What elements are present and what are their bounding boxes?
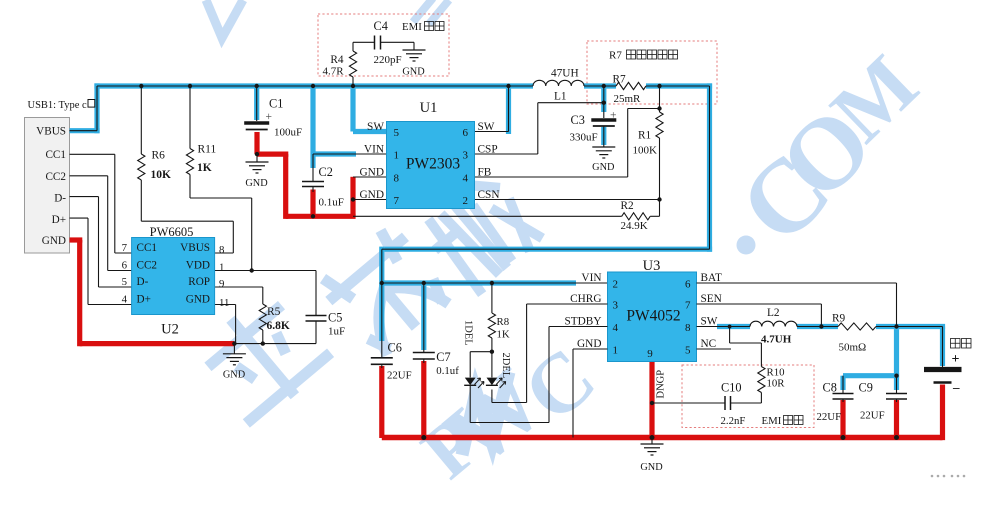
- wire blue bus resume after L1 to R7 left: [584, 83, 616, 88]
- svg-text:6: 6: [122, 260, 128, 272]
- decorative watermark (background): [188, 284, 337, 431]
- wire blue R9 to battery corner: [876, 324, 945, 329]
- wire black U3 STDBY to LED1: [549, 326, 608, 328]
- svg-text:8: 8: [394, 173, 400, 185]
- svg-text:9: 9: [219, 278, 224, 290]
- svg-text:ROP: ROP: [188, 276, 210, 288]
- svg-text:D+: D+: [137, 294, 151, 306]
- wire black D+ to U2 pin4: [70, 217, 89, 219]
- svg-text:100uF: 100uF: [274, 127, 302, 139]
- svg-text:GND: GND: [186, 294, 210, 306]
- svg-text:4.7UH: 4.7UH: [761, 334, 792, 346]
- svg-text:PW2303: PW2303: [406, 156, 461, 173]
- svg-text:25mR: 25mR: [614, 93, 642, 105]
- LED1 diode symbol: [465, 378, 476, 386]
- svg-text:1: 1: [394, 150, 400, 162]
- wire VBUS blue: USB to top bus riser: [70, 128, 100, 133]
- junction dot SW/R10 branch: [728, 325, 732, 329]
- svg-text:EMI: EMI: [762, 415, 782, 427]
- battery symbol: [924, 367, 962, 372]
- capacitor C8 22UF: [842, 376, 844, 394]
- wire black U2 VDD to C5: [215, 270, 317, 272]
- wire red C2 negative stub: [310, 190, 315, 217]
- svg-text:C4: C4: [374, 19, 388, 33]
- svg-text:L1: L1: [554, 91, 567, 103]
- svg-text:11: 11: [219, 297, 229, 309]
- svg-text:4: 4: [122, 294, 128, 306]
- svg-text:SW: SW: [367, 121, 384, 133]
- svg-text:CHRG: CHRG: [570, 293, 601, 305]
- capacitor C4 220pF: [353, 41, 375, 43]
- svg-text:C1: C1: [269, 97, 283, 111]
- resistor R8 1K: [491, 283, 493, 313]
- svg-text:D-: D-: [137, 276, 149, 288]
- svg-text:U2: U2: [161, 322, 179, 338]
- svg-text:50mΩ: 50mΩ: [839, 342, 867, 354]
- svg-text:C3: C3: [571, 113, 585, 127]
- svg-text:R11: R11: [198, 144, 217, 156]
- ground symbol in EMI box: [413, 42, 415, 50]
- svg-text:CC1: CC1: [137, 242, 158, 254]
- svg-text:GND: GND: [640, 462, 663, 473]
- wire red U1 GND pins riser: [350, 177, 355, 217]
- resistor R9 50mOhm: [838, 323, 876, 330]
- svg-text:100K: 100K: [633, 145, 658, 157]
- svg-text:CSN: CSN: [478, 189, 500, 201]
- wire blue right riser down to U3 row: [707, 83, 712, 251]
- wire red USB GND to U2 ground rail: [70, 237, 83, 242]
- wire black CC1 to U2 pin7: [70, 153, 115, 155]
- svg-text:R9: R9: [832, 313, 846, 325]
- svg-text:EMI: EMI: [402, 21, 422, 33]
- svg-text:SW: SW: [478, 121, 495, 133]
- svg-text:C8: C8: [823, 381, 837, 395]
- svg-text:CC1: CC1: [45, 149, 66, 161]
- svg-text:3: 3: [463, 150, 469, 162]
- svg-text:22UF: 22UF: [387, 370, 412, 382]
- wire black bus after L1: [584, 85, 616, 87]
- wire black U3 SW pin to L2: [697, 326, 751, 328]
- svg-text:8: 8: [219, 244, 224, 256]
- wire black U1 GND pin 8: [353, 176, 387, 178]
- svg-text:C2: C2: [319, 165, 333, 179]
- wire red bottom ground bus: [382, 435, 943, 441]
- svg-text:VBUS: VBUS: [180, 242, 210, 254]
- svg-text:1K: 1K: [497, 329, 510, 341]
- wire black U2 ROP to R5: [215, 286, 263, 288]
- wire blue C7 stub: [421, 286, 426, 350]
- svg-text:BAT: BAT: [701, 272, 722, 284]
- capacitor C9 22UF: [896, 376, 898, 394]
- svg-text:R4: R4: [330, 54, 344, 66]
- svg-text:VBUS: VBUS: [36, 126, 66, 138]
- junction dot VDD/R11/C5 node: [250, 268, 254, 272]
- inductor L2 4.7UH: [750, 321, 797, 326]
- svg-text:U3: U3: [643, 258, 661, 274]
- ground symbol under C3: [603, 126, 605, 147]
- svg-text:22UF: 22UF: [817, 411, 842, 423]
- wire black U3 NC stub: [697, 348, 732, 350]
- ground symbol under U2 rail: [233, 344, 235, 354]
- wire black SEN sense line: [697, 303, 822, 305]
- wire red C6 negative to bus corner: [379, 366, 384, 438]
- svg-text:7: 7: [394, 195, 400, 207]
- capacitor C3 330uF polarized: [603, 86, 605, 118]
- svg-text:U1: U1: [420, 100, 438, 116]
- junction dot BAT/R9 node: [894, 324, 898, 328]
- wire black L2 right to R9: [797, 326, 838, 328]
- svg-text:GND: GND: [577, 338, 601, 350]
- svg-text:R2: R2: [621, 200, 635, 212]
- capacitor C2 0.1uF: [312, 154, 314, 182]
- svg-text:CC2: CC2: [137, 260, 158, 272]
- svg-text:47UH: 47UH: [551, 68, 579, 80]
- svg-text:STDBY: STDBY: [564, 316, 601, 328]
- svg-text:6: 6: [463, 127, 469, 139]
- svg-text:7: 7: [122, 242, 128, 254]
- svg-text:C7: C7: [436, 350, 450, 364]
- LED2 diode symbol: [487, 378, 498, 386]
- svg-text:CC2: CC2: [45, 171, 66, 183]
- wire black U1 VIN pin: [313, 153, 387, 155]
- wire red C1 negative to ground rail under U1: [254, 132, 259, 154]
- wire blue bus resume after R7 to right corner: [646, 83, 712, 88]
- junction dots U2 ground rail: [232, 341, 236, 345]
- svg-text:24.9K: 24.9K: [621, 220, 648, 232]
- svg-text:PW4052: PW4052: [626, 308, 680, 325]
- svg-text:GND: GND: [402, 67, 425, 78]
- wire black ground rail under R5/C5: [234, 343, 316, 345]
- wire black U1 SW right pin to riser: [475, 131, 509, 133]
- resistor R11 1K: [189, 86, 191, 149]
- svg-text:4: 4: [613, 322, 619, 334]
- svg-text:5: 5: [394, 127, 400, 139]
- ground symbol under C1: [256, 154, 258, 162]
- junction dot C10/PGND node: [650, 401, 654, 405]
- svg-text:GND: GND: [360, 189, 384, 201]
- wire red U3 PGND riser: [649, 362, 654, 438]
- wire black U1 GND pin 7: [353, 199, 387, 201]
- svg-text:GND: GND: [42, 235, 66, 247]
- wire black U3 CHRG to LED2: [527, 303, 608, 305]
- wire blue C8 branch: [843, 373, 899, 378]
- svg-text:GND: GND: [360, 167, 384, 179]
- wire black FB to R1 top node: [475, 176, 628, 178]
- resistor R5 6.8K: [259, 304, 266, 330]
- junction dots bottom ground bus: [421, 435, 426, 440]
- svg-text:330uF: 330uF: [570, 132, 598, 144]
- capacitor C10 2.2nF: [652, 402, 725, 404]
- svg-text:GND: GND: [223, 370, 246, 381]
- resistor R1 100K: [659, 86, 661, 112]
- wire black CSP to C3 node: [475, 153, 538, 155]
- capacitor C5 1uF: [306, 315, 327, 317]
- svg-text:VIN: VIN: [364, 144, 384, 156]
- wire blue C3 stub top and bottom: [601, 89, 606, 112]
- svg-text:8: 8: [685, 322, 691, 334]
- capacitor C6 22UF: [381, 283, 383, 358]
- dashed box around R7 (optional short): [587, 41, 717, 104]
- resistor R6 10K: [140, 86, 142, 154]
- svg-text:–: –: [952, 380, 960, 395]
- label battery dots bottom right: [931, 475, 966, 478]
- svg-text:CSP: CSP: [478, 144, 498, 156]
- svg-text:DNGP: DNGP: [656, 370, 667, 399]
- resistor R2 24.9K on gnd sense line: [353, 215, 622, 217]
- svg-text:USB1: Type c: USB1: Type c: [28, 100, 87, 111]
- junction dot LED/R8 node: [490, 350, 494, 354]
- wire blue U1 SW right riser: [506, 89, 511, 134]
- svg-text:3: 3: [613, 300, 619, 312]
- svg-text:GND: GND: [245, 178, 268, 189]
- svg-text:1DEL: 1DEL: [463, 320, 474, 346]
- svg-text:C9: C9: [859, 381, 873, 395]
- svg-text:7: 7: [685, 300, 691, 312]
- wire black BAT line: [697, 282, 897, 284]
- wire black U2 GND pin11 down: [215, 304, 236, 306]
- svg-text:C5: C5: [328, 311, 342, 325]
- wire blue stub C1: [254, 86, 259, 120]
- dashed EMI box around C10/R10: [682, 365, 814, 428]
- ground symbol under PGND bus: [651, 438, 653, 445]
- wire blue riser to U1 VIN and C2: [310, 86, 315, 168]
- wire red C7 negative to bus: [421, 361, 426, 438]
- wire black R11 to U2 VDD node: [190, 197, 252, 199]
- svg-text:22UF: 22UF: [860, 410, 885, 422]
- svg-text:FB: FB: [478, 167, 492, 179]
- resistor R10 10R: [758, 367, 765, 393]
- junction dot SEN/L2/R9 node: [819, 324, 823, 328]
- svg-text:D+: D+: [52, 214, 66, 226]
- svg-text:NC: NC: [701, 338, 717, 350]
- svg-text:+: +: [610, 110, 617, 122]
- resistor R7 25mR: [616, 82, 646, 89]
- wire blue C9 branch riser: [894, 329, 899, 390]
- wire blue VIN feed into U3: [382, 280, 576, 285]
- svg-text:6.8K: 6.8K: [267, 320, 290, 332]
- wire black CSN to R1 bottom node: [475, 199, 660, 201]
- svg-text:GND: GND: [592, 162, 615, 173]
- dashed EMI box around R4/C4: [318, 14, 449, 76]
- resistor R4 4.7R: [352, 42, 354, 51]
- wire black U2 VBUS pin to R6 bottom: [215, 252, 234, 254]
- svg-text:2.2nF: 2.2nF: [721, 415, 746, 427]
- svg-text:R6: R6: [152, 150, 166, 162]
- svg-text:6: 6: [685, 279, 691, 291]
- chip U3 PW4052 body: [608, 272, 697, 362]
- wire blue L2 to R9 segment: [797, 324, 838, 329]
- wire black SW node to R10 branch: [729, 327, 731, 344]
- wire red C8 negative to bus: [840, 400, 845, 438]
- svg-text:220pF: 220pF: [374, 54, 402, 66]
- svg-text:1K: 1K: [197, 162, 212, 174]
- junction dot CSN/R1/R2 node: [657, 197, 661, 201]
- svg-text:0.1uf: 0.1uf: [436, 365, 459, 377]
- wire black U3 GND pin1 to ground bus: [573, 348, 608, 350]
- svg-text:R5: R5: [267, 306, 281, 318]
- wire red C9 negative to bus: [894, 400, 899, 438]
- wire blue U1 SW left riser: [350, 89, 355, 132]
- svg-text:2: 2: [613, 279, 619, 291]
- junction dot FB/R1 node: [657, 106, 661, 110]
- wire black R9 right to battery: [876, 326, 943, 328]
- junction dot CSP/C3 node: [602, 101, 606, 105]
- svg-text:0.1uF: 0.1uF: [319, 197, 344, 209]
- wire black bus after R7 down right side to U3 VIN: [646, 85, 710, 87]
- svg-text:R7: R7: [613, 74, 627, 86]
- svg-text:5: 5: [685, 345, 691, 357]
- USB1 connector body: [25, 118, 70, 254]
- capacitor C7 0.1uf: [423, 283, 425, 353]
- svg-text:9: 9: [647, 348, 653, 360]
- svg-text:5: 5: [122, 276, 127, 288]
- svg-text:VDD: VDD: [186, 260, 210, 272]
- wire blue U3 SW segment to L2: [717, 324, 750, 329]
- svg-text:PW6605: PW6605: [150, 225, 194, 239]
- svg-text:2: 2: [463, 195, 469, 207]
- svg-text:D-: D-: [54, 192, 66, 204]
- svg-text:2DEL: 2DEL: [500, 353, 511, 379]
- svg-text:C6: C6: [388, 341, 402, 355]
- svg-text:4: 4: [463, 173, 469, 185]
- svg-text:4.7R: 4.7R: [323, 66, 345, 78]
- svg-text:1: 1: [613, 345, 619, 357]
- capacitor C1 100uF polarized: [256, 86, 258, 121]
- chip U2 PW6605 body: [132, 238, 215, 315]
- svg-text:VIN: VIN: [581, 272, 601, 284]
- svg-text:R1: R1: [638, 130, 651, 142]
- wire blue C6 stub: [379, 283, 384, 341]
- wire black D- to U2 pin5: [70, 196, 99, 198]
- svg-text:R8: R8: [497, 316, 510, 328]
- svg-text:10K: 10K: [151, 169, 172, 181]
- wire red battery negative to bus: [940, 385, 945, 441]
- junction dots top bus: [139, 84, 143, 88]
- wire black LED top junction: [470, 351, 492, 353]
- inductor L1 47UH: [533, 80, 584, 86]
- chip U1 PW2303 body: [387, 122, 475, 209]
- svg-text:10R: 10R: [767, 378, 786, 390]
- svg-text:+: +: [266, 111, 273, 123]
- svg-text:+: +: [952, 352, 960, 367]
- svg-text:1: 1: [219, 262, 224, 274]
- svg-text:1uF: 1uF: [328, 326, 345, 338]
- junction dots red path under U1: [255, 152, 259, 156]
- svg-text:R7: R7: [609, 50, 622, 62]
- junction dot C8/C9 blue branch: [894, 374, 898, 378]
- svg-text:SW: SW: [701, 316, 718, 328]
- svg-text:SEN: SEN: [701, 293, 722, 305]
- junction dots VIN line U3: [380, 281, 384, 285]
- wire black CC2 to U2 pin6: [70, 175, 108, 177]
- wire black center of VBUS bus: [70, 130, 98, 132]
- svg-text:L2: L2: [767, 307, 780, 319]
- svg-text:C10: C10: [721, 381, 742, 395]
- wire blue top VBUS bus horizontal: [94, 83, 533, 88]
